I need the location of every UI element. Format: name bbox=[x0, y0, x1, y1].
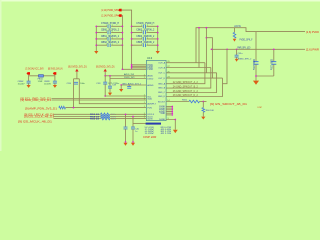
svg-text:[9] SDA_PAD_3V3_D1: [9] SDA_PAD_3V3_D1 bbox=[21, 98, 52, 102]
wire OUT_D return bbox=[166, 78, 222, 96]
svg-text:1: 1 bbox=[106, 31, 107, 33]
wire SCL bbox=[52, 98, 147, 100]
wire PVDD pin2 bbox=[132, 65, 147, 67]
ground bank R bbox=[156, 51, 160, 54]
wire VCC left bbox=[28, 75, 30, 81]
svg-text:1n: 1n bbox=[135, 131, 137, 133]
svg-text:[9] GVDD_3V3_D1: [9] GVDD_3V3_D1 bbox=[68, 64, 87, 68]
junction bank L row4 left bbox=[95, 44, 97, 46]
wire PVDD_SPK top2 bbox=[198, 28, 200, 68]
wire C64 down bbox=[255, 64, 257, 76]
capacitor C33 bbox=[127, 86, 131, 88]
svg-text:DNP: DNP bbox=[258, 107, 263, 109]
wire DGND bbox=[166, 120, 175, 130]
junction top3 mid bbox=[206, 37, 208, 39]
svg-text:1: 1 bbox=[141, 25, 142, 27]
hier pin PVDD_SPK 2 bbox=[118, 14, 122, 17]
svg-text:1: 1 bbox=[144, 106, 145, 108]
wire I2S 2 left bbox=[54, 116, 101, 118]
wire PVDD_SPK top3 bbox=[205, 28, 207, 73]
junction bank L row3 left bbox=[95, 38, 97, 40]
wire CB59 gnd bbox=[54, 83, 56, 85]
svg-text:GND_C: GND_C bbox=[158, 92, 166, 94]
capacitor C61 bank L bbox=[108, 31, 110, 35]
wire I2S 1 left bbox=[54, 113, 101, 115]
junction SDOUT bbox=[202, 101, 204, 103]
capacitor CB59 bbox=[53, 81, 57, 83]
capacitor C62 bank L bbox=[108, 37, 110, 41]
svg-text:C30/: C30/ bbox=[67, 83, 72, 85]
junction PWR_SPK b bbox=[226, 48, 228, 50]
svg-text:CB66 220u: CB66 220u bbox=[252, 59, 255, 71]
svg-text:AGND: AGND bbox=[147, 84, 154, 87]
junction PWR_SPK c bbox=[236, 48, 238, 50]
svg-text:1: 1 bbox=[144, 117, 145, 119]
capacitor C64 bbox=[254, 62, 259, 65]
junction bank L row2 right bbox=[122, 32, 124, 34]
svg-text:29: 29 bbox=[167, 61, 169, 63]
wire PGND 3 bbox=[166, 109, 172, 111]
svg-text:SDIN: SDIN bbox=[147, 118, 152, 120]
wire PVDD bus A bbox=[122, 45, 146, 69]
wire PGND 1 bbox=[166, 105, 172, 107]
wire PGND 6 bbox=[166, 114, 172, 116]
wire OUT_C bbox=[166, 72, 217, 74]
svg-text:14: 14 bbox=[167, 100, 169, 102]
wire C61 dn bbox=[236, 57, 238, 59]
svg-text:2: 2 bbox=[112, 38, 113, 40]
svg-text:DVDD: DVDD bbox=[147, 78, 153, 80]
junction PVDD pin1 bbox=[131, 64, 133, 66]
svg-text:9: 9 bbox=[168, 118, 169, 120]
resistor RG11 bbox=[189, 100, 200, 103]
resistor R50 bbox=[59, 106, 66, 109]
svg-text:2: 2 bbox=[147, 44, 148, 46]
hier pin VDD_SPK_IN bbox=[53, 72, 57, 75]
svg-text:SDOUT: SDOUT bbox=[158, 101, 166, 103]
wire C33 stub bbox=[128, 85, 130, 86]
wire AGND row bbox=[121, 84, 146, 86]
capacitor C65 bbox=[271, 62, 276, 65]
junction bank L row1 left bbox=[95, 25, 97, 27]
svg-text:DVDD_3V3: DVDD_3V3 bbox=[124, 77, 135, 79]
svg-text:GND: GND bbox=[161, 113, 166, 115]
svg-text:[9] I2S_SCLK_48_D1: [9] I2S_SCLK_48_D1 bbox=[24, 115, 55, 119]
capacitor C63 bank L bbox=[108, 43, 110, 47]
no-connect PGND 1 bbox=[172, 106, 174, 108]
no-connect PGND 3 bbox=[172, 109, 174, 111]
svg-text:AVDD_3V3: AVDD_3V3 bbox=[124, 73, 135, 76]
no-connect PGND 4 bbox=[172, 111, 174, 113]
svg-text:CB67 220u: CB67 220u bbox=[270, 59, 273, 71]
wire PVDD_SPK 1 bbox=[122, 10, 132, 26]
svg-text:1: 1 bbox=[141, 38, 142, 40]
capacitor C70 bank R bbox=[143, 25, 145, 29]
wire cap row L4 bbox=[96, 44, 122, 46]
svg-text:[9] DVDD_3V3_D1: [9] DVDD_3V3_D1 bbox=[96, 64, 115, 68]
svg-text:[9] I2S_SDOUT_48_D1: [9] I2S_SDOUT_48_D1 bbox=[210, 103, 248, 106]
power flag DVDD bbox=[104, 69, 107, 72]
power flag GVDD bbox=[75, 69, 78, 72]
svg-text:2: 2 bbox=[112, 31, 113, 33]
junction C40 bbox=[125, 113, 127, 115]
wire PWR_SPK bbox=[212, 48, 306, 50]
wire C40 dn bbox=[125, 129, 127, 142]
junction bank R row2 left bbox=[131, 32, 133, 34]
power arrow AGND bbox=[235, 59, 239, 62]
wire cap row R2 bbox=[132, 32, 158, 34]
svg-text:CB65_3D2F06_2: CB65_3D2F06_2 bbox=[136, 41, 155, 44]
wire I2S 3 right bbox=[110, 118, 146, 120]
resistor R54 bbox=[101, 115, 110, 118]
power arrow PVDD_SPK_F bbox=[233, 39, 237, 42]
wire flag jog bbox=[74, 78, 80, 80]
wire cap row L3 bbox=[96, 38, 122, 40]
svg-text:[T,C]2u: [T,C]2u bbox=[109, 83, 120, 85]
wire AVDD row bbox=[105, 95, 146, 97]
svg-text:28 GND_SPKOUT_D_2: 28 GND_SPKOUT_D_2 bbox=[173, 95, 199, 97]
wire OUT_A return bbox=[166, 63, 205, 84]
junction bank L row1 right bbox=[122, 25, 124, 27]
svg-text:L10 470n: L10 470n bbox=[234, 25, 241, 28]
capacitor C73 bank R bbox=[143, 43, 145, 47]
junction C65 top bbox=[273, 48, 275, 50]
svg-text:OUT_B: OUT_B bbox=[158, 67, 166, 69]
junction bank R row4 left bbox=[131, 44, 133, 46]
svg-text:OUT_D: OUT_D bbox=[158, 78, 166, 80]
svg-text:C31/: C31/ bbox=[96, 83, 101, 85]
junction AGND row bbox=[120, 84, 122, 86]
wire PVDD bus B bbox=[131, 45, 133, 69]
svg-text:[2,6] PWR: [2,6] PWR bbox=[306, 49, 319, 52]
svg-text:2: 2 bbox=[147, 38, 148, 40]
junction bank R row3 right bbox=[157, 38, 159, 40]
svg-text:24 GND_SPKOUT_B_2: 24 GND_SPKOUT_B_2 bbox=[173, 87, 199, 89]
ground AGND bbox=[119, 89, 123, 92]
ground DGND bbox=[173, 130, 178, 133]
ground C41 bbox=[131, 143, 135, 146]
svg-text:C61u: C61u bbox=[238, 53, 244, 55]
wire mid branch bbox=[206, 38, 212, 78]
capacitor C41 bbox=[131, 127, 135, 129]
wire cap row L1 bbox=[96, 25, 122, 27]
wire VCC bridge bbox=[29, 75, 55, 77]
svg-text:120R: 120R bbox=[38, 81, 43, 83]
svg-text:2: 2 bbox=[112, 25, 113, 27]
wire PVDD pin3 bbox=[132, 67, 147, 69]
wire DVDD down 2 bbox=[104, 76, 106, 82]
wire SDA bbox=[52, 99, 147, 101]
ground C40 bbox=[123, 143, 127, 146]
wire cap row L2 bbox=[96, 32, 122, 34]
svg-text:DGND: DGND bbox=[159, 119, 166, 121]
ground C32 bbox=[108, 93, 112, 96]
svg-text:25: 25 bbox=[167, 71, 169, 73]
op-amp U13 body bbox=[146, 60, 166, 120]
wire I2S 3 left bbox=[54, 118, 101, 120]
svg-text:CTANK_PVDD_H: CTANK_PVDD_H bbox=[101, 22, 119, 25]
junction PVDD bus A bbox=[122, 68, 124, 70]
svg-text:2: 2 bbox=[112, 44, 113, 46]
junction PVDD pin3 bbox=[131, 67, 133, 69]
left window edge bbox=[0, 0, 2, 151]
svg-text:3.2W: 3.2W bbox=[145, 133, 154, 135]
wire OUT_D bbox=[166, 77, 222, 79]
junction PDN bbox=[73, 107, 75, 109]
inductor L10 bbox=[233, 32, 236, 38]
wire rail left of cap bank L bbox=[95, 26, 97, 51]
capacitor C30 bbox=[74, 82, 78, 84]
hier pin PVDD_SPK 1 bbox=[118, 9, 122, 12]
wire PVDD_SPK 2 bbox=[121, 16, 124, 27]
wire AVDD feed bbox=[105, 75, 146, 77]
wire VCC right bbox=[54, 75, 56, 81]
capacitor C40 bbox=[124, 127, 128, 129]
svg-text:[2,14] PVDD_SPK: [2,14] PVDD_SPK bbox=[102, 13, 119, 17]
junction bank L row4 right bbox=[122, 44, 124, 46]
svg-text:CB64_3D2F06_2: CB64_3D2F06_2 bbox=[136, 35, 155, 38]
wire PGND 2 bbox=[166, 107, 172, 109]
capacitor C72 bank R bbox=[143, 37, 145, 41]
junction bank R row3 left bbox=[131, 38, 133, 40]
svg-text:GND_AVDD_3V3_2: GND_AVDD_3V3_2 bbox=[122, 82, 142, 85]
svg-text:1: 1 bbox=[144, 99, 145, 101]
resistor R53 bbox=[101, 113, 110, 116]
svg-text:1: 1 bbox=[141, 31, 142, 33]
svg-text:[9] AMP_PDN_3V3_D1: [9] AMP_PDN_3V3_D1 bbox=[25, 106, 58, 110]
wire OUT_B return bbox=[166, 68, 211, 89]
wire PGND 4 bbox=[166, 111, 172, 113]
wire OUT_A bbox=[166, 62, 205, 64]
svg-text:[2,14] PVDD_SPK: [2,14] PVDD_SPK bbox=[102, 8, 119, 12]
capacitor C61 bbox=[235, 55, 239, 57]
ground CB58 bbox=[27, 85, 31, 88]
svg-text:PDN: PDN bbox=[147, 107, 152, 109]
no-connect PGND 2 bbox=[172, 107, 174, 109]
svg-text:1: 1 bbox=[106, 25, 107, 27]
wire I2S 2 right bbox=[110, 116, 146, 118]
svg-text:CB60_3D2F06_2: CB60_3D2F06_2 bbox=[101, 29, 120, 32]
wire C61 stub bbox=[236, 49, 238, 55]
junction top2 bbox=[198, 27, 200, 29]
capacitor C71 bank R bbox=[143, 31, 145, 35]
junction C32 bbox=[109, 75, 111, 77]
svg-text:26 GND_SPKOUT_C_2: 26 GND_SPKOUT_C_2 bbox=[173, 91, 199, 93]
junction bank L row2 left bbox=[95, 32, 97, 34]
wire L10 feed bbox=[234, 28, 236, 33]
ground CB59 bbox=[53, 85, 57, 88]
wire PVDD_SPK top1 bbox=[196, 28, 305, 63]
capacitor C31 bbox=[103, 82, 107, 84]
wire ADDR branch bbox=[79, 79, 146, 104]
svg-text:23: 23 bbox=[167, 77, 169, 79]
wire C41 dn bbox=[132, 129, 134, 142]
svg-text:U13: U13 bbox=[147, 56, 153, 60]
wire C32 gnd bbox=[109, 88, 111, 93]
svg-text:RG11: RG11 bbox=[182, 99, 188, 101]
svg-text:CB61_3D2F06_2: CB61_3D2F06_2 bbox=[101, 35, 120, 38]
svg-text:CB62_3D2F06_2: CB62_3D2F06_2 bbox=[101, 41, 120, 44]
junction DVDD top bbox=[104, 75, 106, 77]
wire rail right of cap bank L bbox=[121, 26, 123, 45]
wire C65 down bbox=[273, 64, 275, 76]
wire I2S 1 right bbox=[110, 113, 146, 115]
svg-text:GND_B: GND_B bbox=[158, 88, 166, 90]
wire PGND 5 bbox=[166, 112, 172, 114]
wire PVDD pin1 bbox=[132, 64, 147, 66]
wire SDOUT bbox=[166, 101, 189, 103]
wire R60 bottom bbox=[202, 112, 204, 116]
wire R60 top bbox=[202, 102, 204, 108]
junction DGND bbox=[174, 119, 176, 121]
svg-text:GND_A: GND_A bbox=[158, 82, 166, 85]
svg-text:AGND_SPK_2: AGND_SPK_2 bbox=[238, 57, 252, 60]
wire cap common bbox=[256, 75, 274, 77]
svg-text:CTANK_PVDD_H: CTANK_PVDD_H bbox=[136, 22, 154, 25]
junction C41 bbox=[132, 116, 134, 118]
svg-text:PWR_SPK_LDO: PWR_SPK_LDO bbox=[237, 47, 250, 50]
svg-text:1: 1 bbox=[144, 102, 145, 104]
junction bank R row1 left bbox=[131, 25, 133, 27]
wire C32 stub bbox=[109, 76, 111, 86]
svg-text:[8] 5V0S_5V0_IN: [8] 5V0S_5V0_IN bbox=[48, 67, 63, 71]
svg-text:R55 22: R55 22 bbox=[90, 118, 100, 120]
wire OUT_C return bbox=[166, 73, 217, 93]
hier pin VCC_5V0 bbox=[27, 72, 31, 75]
capacitor CB58 bbox=[27, 81, 31, 83]
wire GVDD down bbox=[76, 72, 78, 79]
svg-text:[2,6] PVDD: [2,6] PVDD bbox=[306, 31, 319, 34]
svg-text:1: 1 bbox=[106, 44, 107, 46]
svg-text:CB63_3D2F06_2: CB63_3D2F06_2 bbox=[136, 29, 155, 32]
wire AGND gnd bbox=[120, 85, 122, 89]
wire DVDD down bbox=[104, 72, 106, 76]
svg-text:1: 1 bbox=[141, 44, 142, 46]
svg-text:2: 2 bbox=[147, 25, 148, 27]
no-connect PGND 6 bbox=[172, 114, 174, 116]
svg-text:2: 2 bbox=[147, 31, 148, 33]
wire C41 drop bbox=[132, 117, 134, 128]
svg-text:SDA: SDA bbox=[147, 98, 152, 101]
ground right caps bbox=[253, 81, 259, 85]
ground bank L bbox=[94, 51, 98, 54]
wire CB58 gnd bbox=[28, 83, 30, 85]
top window edge bbox=[0, 0, 320, 2]
wire gnd stem right bbox=[255, 76, 257, 81]
wire C31 down bbox=[104, 84, 106, 96]
junction bank R row4 right bbox=[157, 44, 159, 46]
wire cap row R1 bbox=[132, 25, 158, 27]
svg-text:1: 1 bbox=[144, 77, 145, 79]
svg-text:PVDD: PVDD bbox=[147, 69, 153, 71]
wire cap row R3 bbox=[132, 38, 158, 40]
svg-text:22 GND_SPKOUT_A_2: 22 GND_SPKOUT_A_2 bbox=[173, 81, 199, 84]
junction top3 bbox=[206, 27, 208, 29]
wire C64 drop bbox=[255, 32, 257, 62]
svg-text:1: 1 bbox=[106, 38, 107, 40]
svg-text:GND_D: GND_D bbox=[158, 96, 166, 98]
svg-text:10u16V: 10u16V bbox=[18, 83, 26, 85]
part number TAS5805M bbox=[146, 123, 161, 125]
wire PDN vert bbox=[73, 79, 75, 108]
svg-text:R60 10K: R60 10K bbox=[206, 110, 215, 112]
svg-text:PVDD_SPK_F: PVDD_SPK_F bbox=[240, 38, 253, 41]
svg-text:10u16V: 10u16V bbox=[44, 83, 52, 85]
svg-text:4R 1.5W: 4R 1.5W bbox=[161, 133, 172, 135]
wire AGND sense bbox=[223, 49, 228, 83]
junction C31 bbox=[104, 95, 106, 97]
wire OUT_B bbox=[166, 67, 211, 69]
svg-text:1: 1 bbox=[144, 74, 145, 76]
svg-text:[3.3V,5A] VCC_5V0: [3.3V,5A] VCC_5V0 bbox=[26, 67, 44, 71]
resistor R60 bbox=[202, 108, 205, 113]
wire PDN bbox=[66, 107, 147, 109]
junction bank R row2 right bbox=[157, 32, 159, 34]
wire DVDD feed bbox=[110, 78, 146, 80]
junction bank R row1 right bbox=[157, 25, 159, 27]
no-connect PGND 5 bbox=[172, 112, 174, 114]
capacitor C32 bbox=[108, 86, 112, 88]
capacitor C60 bank L bbox=[108, 25, 110, 29]
wire C40 drop bbox=[125, 114, 127, 127]
ground R60 bbox=[201, 117, 205, 120]
junction cap common bbox=[255, 75, 257, 77]
svg-text:[9] I2S_MCLK_48_D1: [9] I2S_MCLK_48_D1 bbox=[18, 120, 53, 124]
junction PWR_SPK a bbox=[211, 48, 213, 50]
wire rail left of cap bank R bbox=[131, 26, 133, 45]
junction C40 bottom bbox=[125, 141, 127, 143]
wire rail right of cap bank R bbox=[157, 26, 159, 51]
svg-text:DNP 22R: DNP 22R bbox=[143, 136, 156, 139]
resistor R55 bbox=[101, 117, 110, 120]
ferrite bead FB10 bbox=[39, 75, 44, 78]
junction PVDD pin2 bbox=[131, 65, 133, 67]
svg-text:OUT_C: OUT_C bbox=[158, 73, 166, 75]
svg-text:ADR/FLT: ADR/FLT bbox=[147, 103, 156, 106]
junction bank L row3 right bbox=[122, 38, 124, 40]
wire GPIO cap link bbox=[133, 122, 146, 124]
wire cap row R4 bbox=[132, 44, 158, 46]
junction C41 bottom bbox=[132, 141, 134, 143]
wire C65 drop bbox=[273, 49, 275, 61]
svg-text:OUT_A: OUT_A bbox=[158, 62, 166, 65]
wire SDOUT 2 bbox=[200, 101, 207, 103]
svg-text:27: 27 bbox=[167, 66, 169, 68]
svg-text:AVDD: AVDD bbox=[147, 75, 153, 78]
